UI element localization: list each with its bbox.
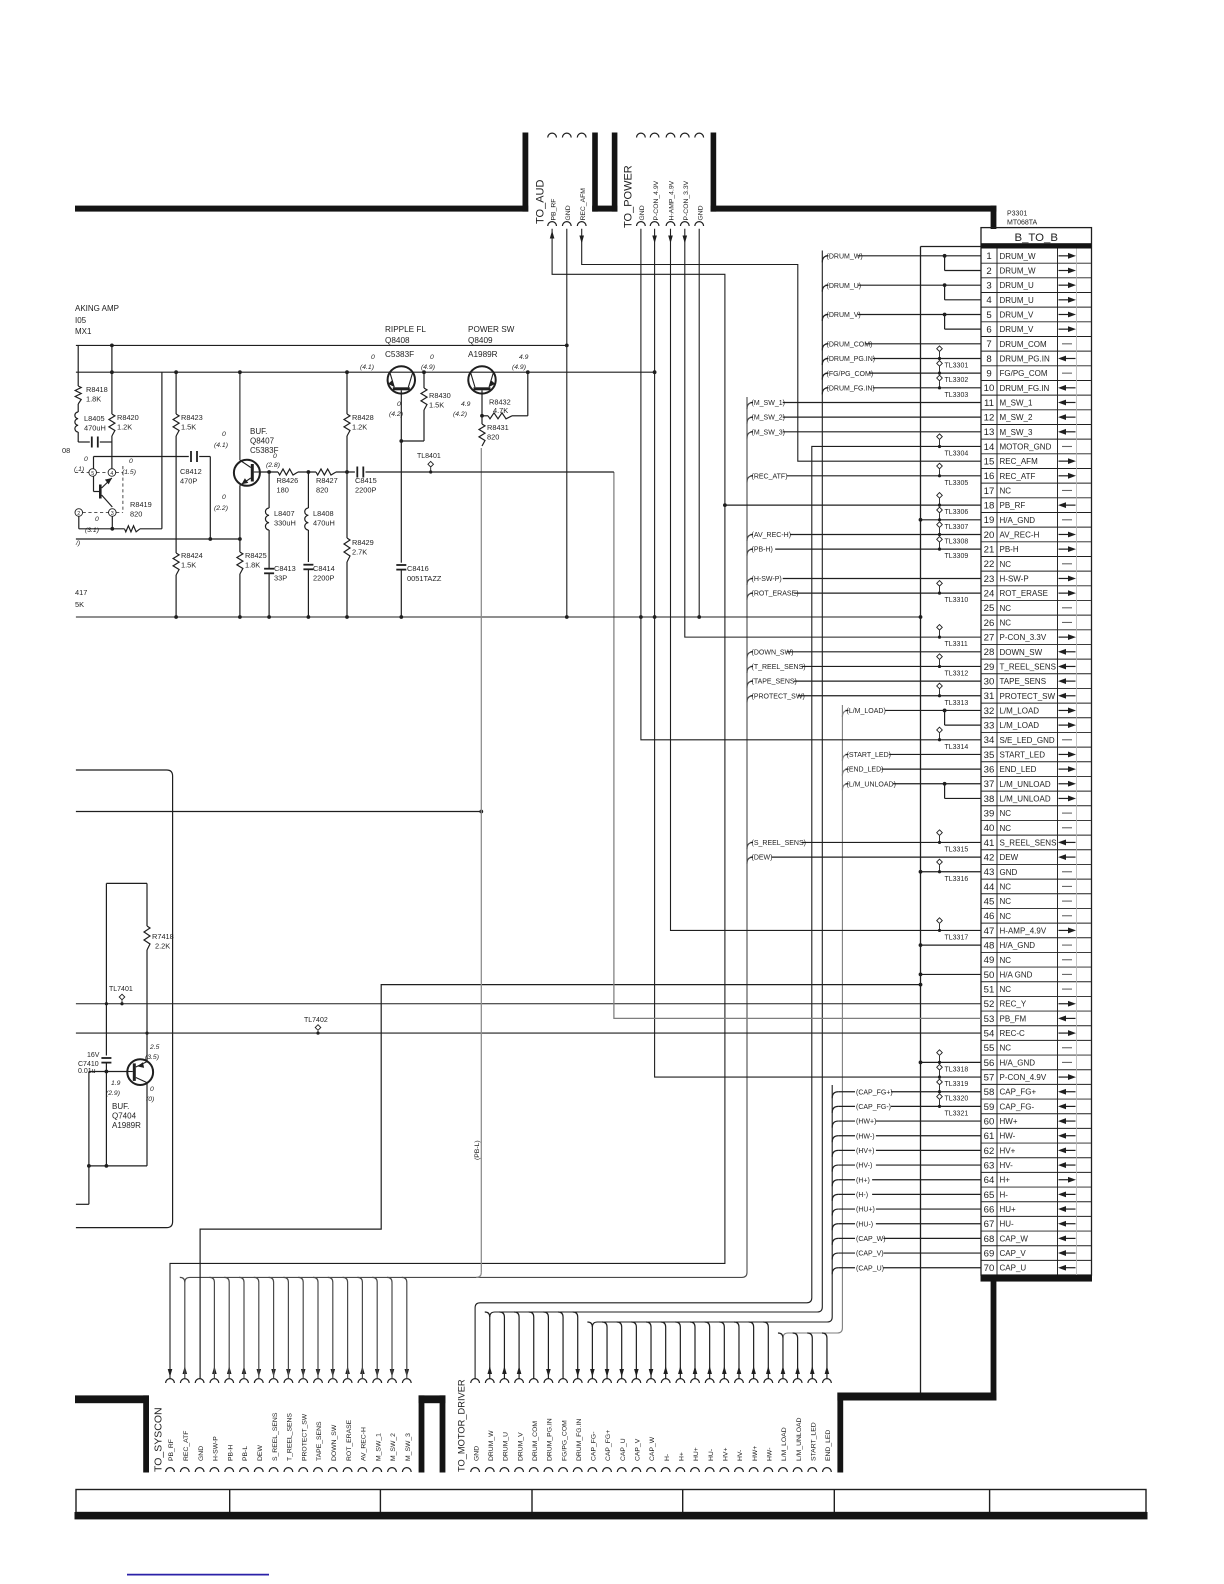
svg-text:GND: GND [1000, 868, 1018, 877]
svg-text:23: 23 [984, 574, 995, 585]
svg-text:180: 180 [277, 486, 289, 495]
svg-text:L/M_LOAD: L/M_LOAD [781, 1427, 788, 1461]
svg-text:CAP_V: CAP_V [635, 1438, 642, 1461]
test link TL3307 on pin 19 [937, 507, 943, 513]
svg-text:50: 50 [984, 970, 995, 981]
svg-text:START_LED: START_LED [810, 1422, 817, 1461]
svg-text:TL3302: TL3302 [945, 377, 969, 384]
svg-text:TL3312: TL3312 [945, 670, 969, 677]
svg-text:820: 820 [316, 486, 328, 495]
svg-text:P3301: P3301 [1007, 211, 1027, 218]
resistor R8427 820 [316, 469, 336, 475]
TO_MOTOR_DRIVER pin DRUM_W [485, 1379, 494, 1383]
svg-text:4.9: 4.9 [461, 401, 471, 408]
svg-text:TO_POWER: TO_POWER [623, 165, 635, 228]
svg-text:(3.1): (3.1) [85, 527, 99, 534]
net stub (H-) to pin 65 [832, 1194, 838, 1201]
wire 617 GND line end dot [919, 615, 923, 619]
svg-text:53: 53 [984, 1014, 995, 1025]
svg-text:(4.9): (4.9) [512, 364, 526, 371]
net stub (START_LED) to pin 35 [842, 754, 848, 761]
svg-text:TL3321: TL3321 [945, 1110, 969, 1117]
svg-text:H/A_GND: H/A_GND [1000, 516, 1036, 525]
svg-text:5K: 5K [75, 600, 84, 609]
svg-text:H-SW-P: H-SW-P [213, 1436, 220, 1461]
svg-text:55: 55 [984, 1043, 995, 1054]
page border tab left of TO_AUD [523, 133, 529, 212]
svg-text:PB_RF: PB_RF [550, 199, 557, 221]
svg-text:4: 4 [986, 295, 992, 306]
svg-text:TL3306: TL3306 [945, 509, 969, 516]
page border tab right of TO_MOTOR_DRIVER [837, 1393, 843, 1473]
TO_SYSCON pin M_SW_3 [402, 1379, 411, 1383]
wire y=539 [76, 538, 240, 540]
svg-text:(CAP_U): (CAP_U) [856, 1265, 884, 1272]
page border inverted-U tab between TO_SYSCON and TO_MOTOR_DRIVER [419, 1395, 425, 1472]
TO_MOTOR_DRIVER pin CAP_W [647, 1379, 656, 1383]
svg-text:NC: NC [1000, 882, 1012, 891]
test link TL3301 on pin 8 [937, 346, 943, 352]
svg-text:TL3301: TL3301 [945, 362, 969, 369]
net stub (ROT_ERASE) to pin 24 [747, 593, 753, 600]
svg-text:1.5K: 1.5K [181, 561, 196, 570]
svg-text:26: 26 [984, 618, 995, 629]
svg-text:(DRUM_FG.IN): (DRUM_FG.IN) [827, 385, 875, 392]
resistor R8418 1.8K [77, 345, 79, 386]
svg-text:HU+: HU+ [1000, 1205, 1017, 1214]
net stub (PROTECT_SW) to pin 31 [747, 696, 753, 703]
test link TL3315 on pin 41 [937, 830, 943, 836]
svg-text:45: 45 [984, 896, 995, 907]
wire pin18 PB_RF to table [725, 504, 981, 506]
svg-text:51: 51 [984, 984, 995, 995]
net stub (FG/PG_COM) to pin 9 [822, 373, 828, 380]
resistor R8423 1.5K [175, 372, 177, 414]
svg-text:DRUM_W: DRUM_W [1000, 252, 1036, 261]
svg-text:(2.2): (2.2) [214, 505, 228, 512]
svg-text:30: 30 [984, 677, 995, 688]
svg-text:CAP_FG+: CAP_FG+ [605, 1430, 612, 1461]
TO_MOTOR_DRIVER pin DRUM_U [500, 1379, 509, 1383]
svg-text:6: 6 [986, 325, 991, 336]
svg-text:C8413: C8413 [274, 564, 296, 573]
svg-text:DRUM_U: DRUM_U [1000, 281, 1034, 290]
test link TL3321 on pin 59 [937, 1094, 943, 1100]
svg-text:TL3316: TL3316 [945, 876, 969, 883]
svg-text:(M_SW_2): (M_SW_2) [752, 415, 785, 422]
svg-text:34: 34 [984, 735, 995, 746]
svg-text:RIPPLE FL: RIPPLE FL [385, 325, 426, 334]
TO_SYSCON pin PROTECT_SW [299, 1379, 308, 1383]
svg-text:MOTOR_GND: MOTOR_GND [1000, 442, 1052, 451]
TO_SYSCON pin PB-H [225, 1379, 234, 1383]
svg-text:BUF.: BUF. [250, 427, 267, 436]
connector pin GND at x=699.2 [695, 133, 704, 137]
svg-text:R8432: R8432 [489, 398, 511, 407]
svg-text:(T_REEL_SENS): (T_REEL_SENS) [752, 664, 806, 671]
svg-text:PB-L: PB-L [242, 1446, 249, 1461]
test link TL3311 on pin 27 [937, 625, 943, 631]
svg-text:0: 0 [129, 458, 133, 465]
svg-text:TL3315: TL3315 [945, 846, 969, 853]
TO_SYSCON pin REC_ATF [180, 1379, 189, 1383]
wire MOTOR_GND pin14 to TO_MOTOR_DRIVER GND [475, 446, 981, 1378]
svg-text:(HU+): (HU+) [856, 1207, 875, 1214]
TO_SYSCON pin DEW [254, 1379, 263, 1383]
test link TL3303 on pin 10 [937, 375, 943, 381]
svg-text:29: 29 [984, 662, 995, 673]
TO_MOTOR_DRIVER pin L/M_LOAD [779, 1379, 788, 1383]
svg-text:1.9: 1.9 [111, 1080, 121, 1087]
svg-text:PROTECT_SW: PROTECT_SW [1000, 692, 1056, 701]
svg-text:27: 27 [984, 633, 995, 644]
svg-text:NC: NC [1000, 985, 1012, 994]
test link TL3318 on pin 56 [937, 1050, 943, 1056]
svg-text:5: 5 [91, 471, 94, 477]
svg-text:R8425: R8425 [245, 551, 267, 560]
svg-text:35: 35 [984, 750, 995, 761]
svg-text:(4.2): (4.2) [389, 411, 403, 418]
svg-text:H-SW-P: H-SW-P [1000, 574, 1029, 583]
svg-text:63: 63 [984, 1160, 995, 1171]
TO_MOTOR_DRIVER pin DRUM_COM [529, 1379, 538, 1383]
svg-text:P-CON_4.9V: P-CON_4.9V [653, 180, 660, 220]
svg-text:TL3314: TL3314 [945, 744, 969, 751]
page border bottom-right segment [837, 1393, 996, 1401]
wire y=456 with C8412 [94, 456, 189, 458]
svg-text:(CAP_V): (CAP_V) [856, 1251, 884, 1258]
TO_SYSCON pin drops from bus [180, 1277, 185, 1378]
test link TL3320 on pin 58 [937, 1079, 943, 1085]
svg-text:GND: GND [473, 1446, 480, 1461]
connector pin PB_RF at x=552.1 [548, 133, 557, 137]
test link TL3308 on pin 20 [937, 522, 943, 528]
svg-text:M_SW_3: M_SW_3 [405, 1433, 412, 1461]
TO_MOTOR_DRIVER pin H+ [676, 1379, 685, 1383]
svg-text:DRUM_COM: DRUM_COM [532, 1421, 539, 1461]
svg-text:REC_AFM: REC_AFM [580, 188, 587, 221]
svg-text:H+: H+ [679, 1452, 686, 1461]
svg-text:HV-: HV- [737, 1450, 744, 1461]
net stub (M_SW_2) to pin 12 [747, 417, 753, 424]
wire stub y=811 to PB-L [76, 811, 481, 813]
svg-text:0: 0 [430, 354, 434, 361]
svg-text:9: 9 [986, 369, 991, 380]
net stub (HV+) to pin 62 [832, 1150, 838, 1157]
svg-text:(PB-H): (PB-H) [752, 547, 773, 554]
net stub (DRUM_COM) to pin 7 [822, 344, 828, 351]
svg-text:3: 3 [111, 511, 114, 517]
test link TL3302 on pin 9 [937, 361, 943, 367]
svg-text:1.5K: 1.5K [429, 401, 444, 410]
TO_SYSCON pin M_SW_2 [388, 1379, 397, 1383]
svg-text:PB-H: PB-H [1000, 545, 1019, 554]
svg-text:DOWN_SW: DOWN_SW [331, 1424, 338, 1461]
svg-text:42: 42 [984, 852, 995, 863]
TO_SYSCON pin AV_REC-H [358, 1379, 367, 1383]
TO_SYSCON pin GND [195, 1379, 204, 1383]
capacitor C8414 2200P [303, 564, 313, 566]
svg-text:TL3318: TL3318 [945, 1066, 969, 1073]
svg-text:L/M_LOAD: L/M_LOAD [1000, 706, 1040, 715]
svg-text:TL3304: TL3304 [945, 450, 969, 457]
svg-text:(L/M_LOAD): (L/M_LOAD) [847, 708, 886, 715]
TO_MOTOR_DRIVER pin DRUM_PG.IN [544, 1379, 553, 1383]
svg-text:TL3307: TL3307 [945, 524, 969, 531]
svg-text:REC_Y: REC_Y [1000, 1000, 1027, 1009]
svg-text:(START_LED): (START_LED) [847, 752, 891, 759]
svg-text:CAP_W: CAP_W [649, 1436, 656, 1461]
svg-text:(AV_REC-H): (AV_REC-H) [752, 532, 792, 539]
TO_MOTOR_DRIVER pin HV- [735, 1379, 744, 1383]
svg-text:HV+: HV+ [1000, 1146, 1016, 1155]
svg-text:24: 24 [984, 589, 995, 600]
svg-text:(DOWN_SW): (DOWN_SW) [752, 649, 794, 656]
svg-text:(PROTECT_SW): (PROTECT_SW) [752, 693, 805, 700]
svg-text:M_SW_3: M_SW_3 [1000, 428, 1033, 437]
svg-text:TL3310: TL3310 [945, 597, 969, 604]
svg-text:52: 52 [984, 999, 995, 1010]
svg-text:END_LED: END_LED [1000, 765, 1037, 774]
svg-text:41: 41 [984, 838, 995, 849]
svg-text:(H-): (H-) [856, 1192, 868, 1199]
resistor R8430 1.5K [423, 372, 425, 388]
svg-text:0: 0 [371, 354, 375, 361]
connector table bottom bar [981, 1275, 1093, 1282]
svg-text:(L/M_UNLOAD): (L/M_UNLOAD) [847, 781, 896, 788]
svg-text:S_REEL_SENS: S_REEL_SENS [1000, 838, 1057, 847]
resistor R8426 180 [278, 469, 298, 475]
transistor Q7404 BUF [127, 1059, 153, 1085]
svg-text:(DEW): (DEW) [752, 855, 773, 862]
wire REC-C net (TL7402) to pin 54 [76, 1032, 981, 1034]
test link TL3319 on pin 57 [937, 1064, 943, 1070]
svg-text:H+: H+ [1000, 1176, 1011, 1185]
svg-text:2.2K: 2.2K [155, 942, 170, 951]
svg-text:NC: NC [1000, 604, 1012, 613]
svg-text:37: 37 [984, 779, 995, 790]
svg-text:NC: NC [1000, 824, 1012, 833]
svg-text:S/E_LED_GND: S/E_LED_GND [1000, 736, 1055, 745]
svg-text:(END_LED): (END_LED) [847, 767, 884, 774]
svg-text:16: 16 [984, 471, 995, 482]
svg-text:(REC_ATF): (REC_ATF) [752, 473, 788, 480]
capacitor C7410 0.01u 16V [105, 883, 107, 1055]
GND rail wire (vertical, right of circuit) [920, 247, 922, 1393]
svg-text:(2.9): (2.9) [106, 1090, 120, 1097]
bus wire H/CAP (vertical) [592, 1085, 832, 1327]
svg-text:MT068TA: MT068TA [1007, 220, 1038, 227]
svg-text:PROTECT_SW: PROTECT_SW [301, 1413, 308, 1461]
svg-text:R8423: R8423 [181, 413, 203, 422]
wire GND rail to pin 43 [921, 871, 982, 873]
svg-text:R8426: R8426 [277, 476, 299, 485]
svg-text:FG/PG_COM: FG/PG_COM [1000, 369, 1048, 378]
test link TL3312 on pin 29 [937, 654, 943, 660]
page border U-tab between TO_AUD and TO_POWER [592, 133, 598, 212]
svg-text:NC: NC [1000, 897, 1012, 906]
svg-text:(DRUM_COM): (DRUM_COM) [827, 341, 873, 348]
svg-text:21: 21 [984, 545, 995, 556]
page border top-right segment [711, 206, 997, 212]
svg-text:(DRUM_U): (DRUM_U) [827, 283, 862, 290]
TO_MOTOR_DRIVER pin HU+ [691, 1379, 700, 1383]
svg-text:Q7404: Q7404 [112, 1112, 137, 1121]
svg-text:CAP_FG-: CAP_FG- [1000, 1102, 1035, 1111]
net stub (HW+) to pin 60 [832, 1121, 838, 1128]
bus wire LOAD/LED (vertical, gray) [783, 705, 842, 1338]
svg-text:R8419: R8419 [130, 500, 152, 509]
net stub (HW-) to pin 61 [832, 1136, 838, 1143]
svg-text:HW-: HW- [767, 1448, 774, 1461]
svg-text:GND: GND [565, 205, 572, 220]
svg-text:L/M_UNLOAD: L/M_UNLOAD [1000, 780, 1051, 789]
net stub (CAP_W) to pin 68 [832, 1238, 838, 1245]
svg-text:AV_REC-H: AV_REC-H [361, 1427, 368, 1461]
svg-text:(CAP_W): (CAP_W) [856, 1236, 886, 1243]
net stub (PB-H) to pin 21 [747, 549, 753, 556]
svg-text:470P: 470P [180, 477, 197, 486]
svg-text:C8415: C8415 [355, 476, 377, 485]
svg-text:DEW: DEW [1000, 853, 1019, 862]
svg-text:(FG/PG_COM): (FG/PG_COM) [827, 371, 874, 378]
svg-text:L/M_UNLOAD: L/M_UNLOAD [796, 1417, 803, 1461]
svg-text:L8405: L8405 [84, 414, 105, 423]
bus wire DRUM (vertical) [490, 251, 823, 1318]
IC pin circles and dashed package box [89, 469, 97, 477]
svg-text:(M_SW_3): (M_SW_3) [752, 429, 785, 436]
test link TL3314 on pin 34 [937, 727, 943, 733]
paired-pin jogs (1-2,3-4,5-6,32-33,37-38) [943, 254, 947, 258]
svg-text:DRUM_V: DRUM_V [1000, 325, 1034, 334]
svg-text:56: 56 [984, 1058, 995, 1069]
svg-text:DEW: DEW [257, 1445, 264, 1461]
svg-text:22: 22 [984, 559, 995, 570]
svg-text:54: 54 [984, 1028, 995, 1039]
svg-text:B_TO_B: B_TO_B [1015, 232, 1058, 244]
svg-text:TL3311: TL3311 [945, 641, 968, 648]
test link TL3309 on pin 21 [937, 537, 943, 543]
svg-text:(ROT_ERASE): (ROT_ERASE) [752, 591, 799, 598]
svg-text:C8416: C8416 [407, 564, 429, 573]
svg-text:R8424: R8424 [181, 551, 203, 560]
TO_SYSCON pin M_SW_1 [373, 1379, 382, 1383]
svg-text:T_REEL_SENS: T_REEL_SENS [287, 1413, 294, 1461]
svg-text:C8412: C8412 [180, 467, 202, 476]
svg-text:TL3319: TL3319 [945, 1081, 969, 1088]
svg-text:12: 12 [984, 413, 995, 424]
TO_MOTOR_DRIVER pin CAP_FG+ [603, 1379, 612, 1383]
svg-text:820: 820 [130, 510, 142, 519]
test link TL3317 on pin 47 [937, 918, 943, 924]
svg-text:NC: NC [1000, 560, 1012, 569]
svg-text:1.5K: 1.5K [181, 423, 196, 432]
svg-text:GND: GND [697, 205, 704, 220]
svg-text:NC: NC [1000, 486, 1012, 495]
net stub (CAP_U) to pin 70 [832, 1268, 838, 1275]
svg-text:R8430: R8430 [429, 391, 451, 400]
svg-text:68: 68 [984, 1234, 995, 1245]
TO_MOTOR_DRIVER pin END_LED [823, 1379, 832, 1383]
svg-text:L8408: L8408 [313, 509, 334, 518]
svg-text:DOWN_SW: DOWN_SW [1000, 648, 1043, 657]
svg-text:(H+): (H+) [856, 1177, 870, 1184]
svg-text:A1989R: A1989R [468, 350, 498, 359]
connector pin REC_AFM at x=581.7 [577, 133, 586, 137]
svg-text:43: 43 [984, 867, 995, 878]
svg-text:2: 2 [986, 266, 991, 277]
svg-text:P-CON_3.3V: P-CON_3.3V [683, 180, 690, 220]
test link TL3304 on pin 14 [937, 434, 943, 440]
svg-text:58: 58 [984, 1087, 995, 1098]
TO_MOTOR_DRIVER pin drops [485, 1312, 490, 1379]
svg-text:0: 0 [84, 456, 88, 463]
svg-text:13: 13 [984, 427, 995, 438]
svg-text:60: 60 [984, 1116, 995, 1127]
R8431/PB-L gray vertical [480, 448, 482, 1272]
svg-text:1.8K: 1.8K [245, 561, 260, 570]
svg-text:HW+: HW+ [1000, 1117, 1018, 1126]
svg-text:1: 1 [986, 251, 991, 262]
TO_MOTOR_DRIVER pin L/M_UNLOAD [793, 1379, 802, 1383]
svg-text:(H-SW-P): (H-SW-P) [752, 576, 782, 583]
svg-text:33P: 33P [274, 574, 287, 583]
TO_SYSCON pin PB-L [240, 1379, 249, 1383]
svg-text:19: 19 [984, 515, 995, 526]
net stub (DRUM_FG.IN) to pin 10 [822, 388, 828, 395]
svg-text:REC_AFM: REC_AFM [1000, 457, 1039, 466]
TO_MOTOR_DRIVER pin FG/PG_COM [559, 1379, 568, 1383]
svg-text:S_REEL_SENS: S_REEL_SENS [272, 1412, 279, 1461]
blue hyperlink line [127, 1574, 269, 1576]
bus wire SYSCON (vertical) [185, 397, 747, 1282]
svg-text:CAP_W: CAP_W [1000, 1234, 1029, 1243]
svg-text:11: 11 [984, 398, 994, 409]
svg-text:1.8K: 1.8K [86, 395, 101, 404]
svg-text:10: 10 [984, 383, 995, 394]
svg-text:PB_FM: PB_FM [1000, 1014, 1027, 1023]
page border top-left segment [75, 206, 528, 212]
svg-text:2: 2 [77, 511, 80, 517]
svg-text:R8418: R8418 [86, 385, 108, 394]
svg-text:28: 28 [984, 647, 995, 658]
svg-text:(CAP_FG-): (CAP_FG-) [856, 1104, 891, 1111]
svg-text:H/A_GND: H/A_GND [1000, 1058, 1036, 1067]
net stub (H-SW-P) to pin 23 [747, 578, 753, 585]
svg-text:33: 33 [984, 721, 995, 732]
svg-text:DRUM_FG.IN: DRUM_FG.IN [576, 1419, 583, 1461]
svg-text:(DRUM_V): (DRUM_V) [827, 312, 861, 319]
TO_SYSCON pin S_REEL_SENS [269, 1379, 278, 1383]
svg-text:TL7401: TL7401 [109, 986, 133, 993]
TO_SYSCON pin PB_RF [166, 1379, 175, 1383]
svg-text:39: 39 [984, 809, 995, 820]
svg-text:HV-: HV- [1000, 1161, 1014, 1170]
svg-text:TAPE_SENS: TAPE_SENS [316, 1421, 323, 1461]
resistor R7418 2.2K [106, 883, 147, 926]
capacitor C8416 0051TAZZ [400, 441, 402, 563]
resistor R8431 820 [479, 424, 485, 446]
svg-text:R8428: R8428 [352, 413, 374, 422]
wire H-AMP_4.9V to pin47 [671, 229, 982, 931]
net stub (END_LED) to pin 36 [842, 769, 848, 776]
svg-text:DRUM_V: DRUM_V [517, 1432, 524, 1461]
net stub (DRUM_U) to pin 3 [822, 285, 828, 292]
svg-text:M_SW_2: M_SW_2 [390, 1433, 397, 1461]
svg-text:CAP_U: CAP_U [1000, 1264, 1027, 1273]
PB-L riser fillet onto SYSCON bus [476, 1272, 481, 1277]
svg-text:65: 65 [984, 1190, 995, 1201]
